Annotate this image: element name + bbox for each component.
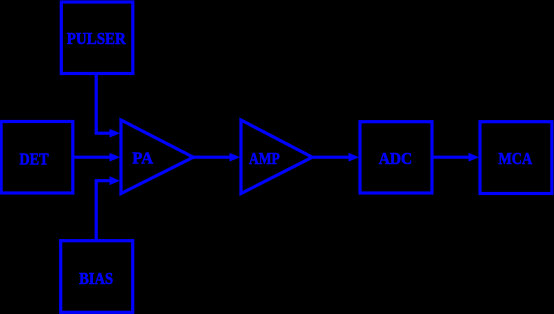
arrowhead into MCA: [469, 153, 480, 162]
wire DET to PA: [73, 156, 110, 159]
label AMP: [249, 149, 280, 168]
label DET: [19, 149, 49, 168]
box MCA: [480, 122, 552, 194]
label ADC: [379, 149, 412, 168]
svg-text:ADC: ADC: [379, 149, 412, 168]
label BIAS: [79, 269, 113, 288]
wire PULSER to PA: [96, 74, 110, 134]
label MCA: [498, 149, 532, 168]
wire AMP to ADC: [312, 156, 349, 159]
svg-text:AMP: AMP: [249, 149, 280, 168]
arrowhead into PA bottom input: [110, 176, 121, 185]
preamp PA: [121, 120, 193, 194]
svg-text:DET: DET: [19, 149, 49, 168]
label PA: [132, 149, 154, 168]
box ADC: [360, 122, 432, 193]
box PULSER: [61, 2, 133, 74]
arrowhead into PA top input: [110, 129, 121, 138]
arrowhead into AMP: [230, 153, 241, 162]
amplifier AMP: [241, 120, 312, 194]
wire ADC to MCA: [432, 156, 469, 159]
svg-text:PA: PA: [132, 149, 154, 168]
svg-text:MCA: MCA: [498, 149, 532, 168]
label PULSER: [67, 29, 127, 48]
arrowhead into PA middle input: [110, 153, 121, 162]
wire BIAS to PA: [96, 181, 110, 241]
box BIAS: [61, 241, 133, 313]
svg-text:BIAS: BIAS: [79, 269, 113, 288]
wire PA to AMP: [193, 156, 230, 159]
box DET: [1, 122, 73, 194]
arrowhead into ADC: [349, 153, 360, 162]
svg-text:PULSER: PULSER: [67, 29, 127, 48]
